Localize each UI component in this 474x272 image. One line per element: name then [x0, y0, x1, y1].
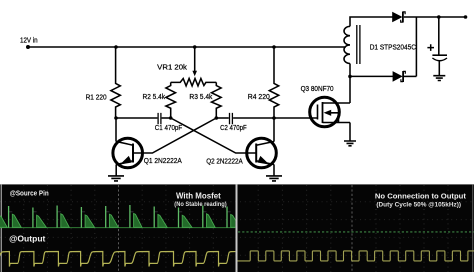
- svg-text:D1 STPS2045C: D1 STPS2045C: [370, 42, 417, 51]
- ground Q1: [108, 176, 124, 181]
- mosfet Q3: [310, 97, 350, 127]
- yellow trace @Output waveform left: [0, 252, 255, 267]
- wire node D to Q3 gate: [274, 117, 318, 119]
- node D (R4/C2): [272, 116, 276, 120]
- oscilloscope panel background: [0, 184, 474, 272]
- capacitor C3 output (polarized): [438, 17, 440, 55]
- green flat dashed trace right: [238, 231, 474, 233]
- green trace ghost connectors: [9, 211, 231, 213]
- svg-text:With Mosfet: With Mosfet: [176, 192, 221, 201]
- node C (R3/C2): [215, 116, 219, 120]
- ground C3: [433, 76, 445, 81]
- svg-text:R3 5.4k: R3 5.4k: [189, 92, 212, 101]
- svg-text:Q2 2N2222A: Q2 2N2222A: [206, 157, 243, 166]
- node coil bottom: [348, 75, 352, 79]
- resistor R4: [269, 47, 278, 118]
- scope left border: [1, 184, 2, 272]
- svg-text:@Output: @Output: [9, 233, 45, 243]
- green trace spikes: [9, 205, 227, 228]
- wire Q1 collector: [115, 118, 117, 142]
- svg-text:12V in: 12V in: [20, 35, 38, 44]
- svg-text:(Duty Cycle 50% @105kHz)): (Duty Cycle 50% @105kHz)): [376, 203, 461, 209]
- node rail-R1: [114, 45, 118, 49]
- wire Q1 emitter: [115, 164, 117, 175]
- svg-text:@Source Pin: @Source Pin: [10, 190, 49, 197]
- svg-text:VR1 20k: VR1 20k: [157, 63, 187, 72]
- wire Q2 collector: [273, 118, 275, 142]
- green trace partial fin at left edge: [0, 216, 7, 228]
- transformer core: [357, 25, 360, 64]
- wire Q3 source down: [349, 123, 351, 141]
- node output cap: [437, 15, 441, 19]
- resistor R3: [212, 82, 222, 118]
- svg-text:R4 220: R4 220: [248, 92, 270, 101]
- svg-text:R1 220: R1 220: [86, 92, 107, 101]
- ground Q3: [344, 141, 356, 146]
- wire cross-couple C to Q1 base: [133, 118, 216, 153]
- svg-text:C2 470pF: C2 470pF: [220, 123, 247, 132]
- svg-text:(No Stable reading): (No Stable reading): [174, 202, 226, 208]
- capacitor C1: [116, 117, 157, 119]
- output terminal dot: [464, 15, 468, 19]
- potentiometer VR1: [194, 47, 196, 72]
- green trace fin fills: [0, 205, 240, 228]
- resistor R1: [111, 47, 120, 118]
- scope graticule left: [24, 185, 448, 272]
- svg-text:No Connection to Output: No Connection to Output: [375, 191, 466, 200]
- scope right border: [472, 184, 473, 272]
- scope divider: [236, 184, 238, 272]
- 12V terminal dot: [26, 45, 30, 49]
- wire Q3 drain up: [349, 76, 351, 103]
- svg-text:C1 470pF: C1 470pF: [155, 123, 183, 132]
- yellow trace square wave right: [238, 251, 474, 261]
- wire main 12V rail: [28, 46, 346, 48]
- node rail-VR1: [193, 45, 197, 49]
- inductor L1 (tapped coil): [349, 64, 351, 77]
- wire rectifier output vertical: [415, 17, 417, 76]
- node rail-R4: [272, 45, 276, 49]
- svg-text:Q1 2N2222A: Q1 2N2222A: [144, 156, 182, 165]
- wire Q2 emitter: [273, 164, 275, 175]
- svg-text:R2 5.4k: R2 5.4k: [143, 92, 166, 101]
- node A (R1/C1): [114, 116, 118, 120]
- transistor Q1: [113, 138, 143, 168]
- transistor Q2: [247, 138, 277, 168]
- diode D1 bottom (schottky): [350, 75, 393, 77]
- capacitor C2: [216, 117, 229, 119]
- wire cross-couple B to Q2 base: [171, 118, 257, 153]
- green trace baseline left: [0, 227, 235, 229]
- resistor R2: [166, 82, 176, 118]
- svg-text:Q3 80NF70: Q3 80NF70: [301, 84, 334, 93]
- ground Q2: [266, 176, 282, 181]
- scope center graticule lines: [119, 185, 353, 272]
- diode D1 top (schottky): [392, 12, 402, 23]
- node B (R2/C1): [169, 116, 173, 120]
